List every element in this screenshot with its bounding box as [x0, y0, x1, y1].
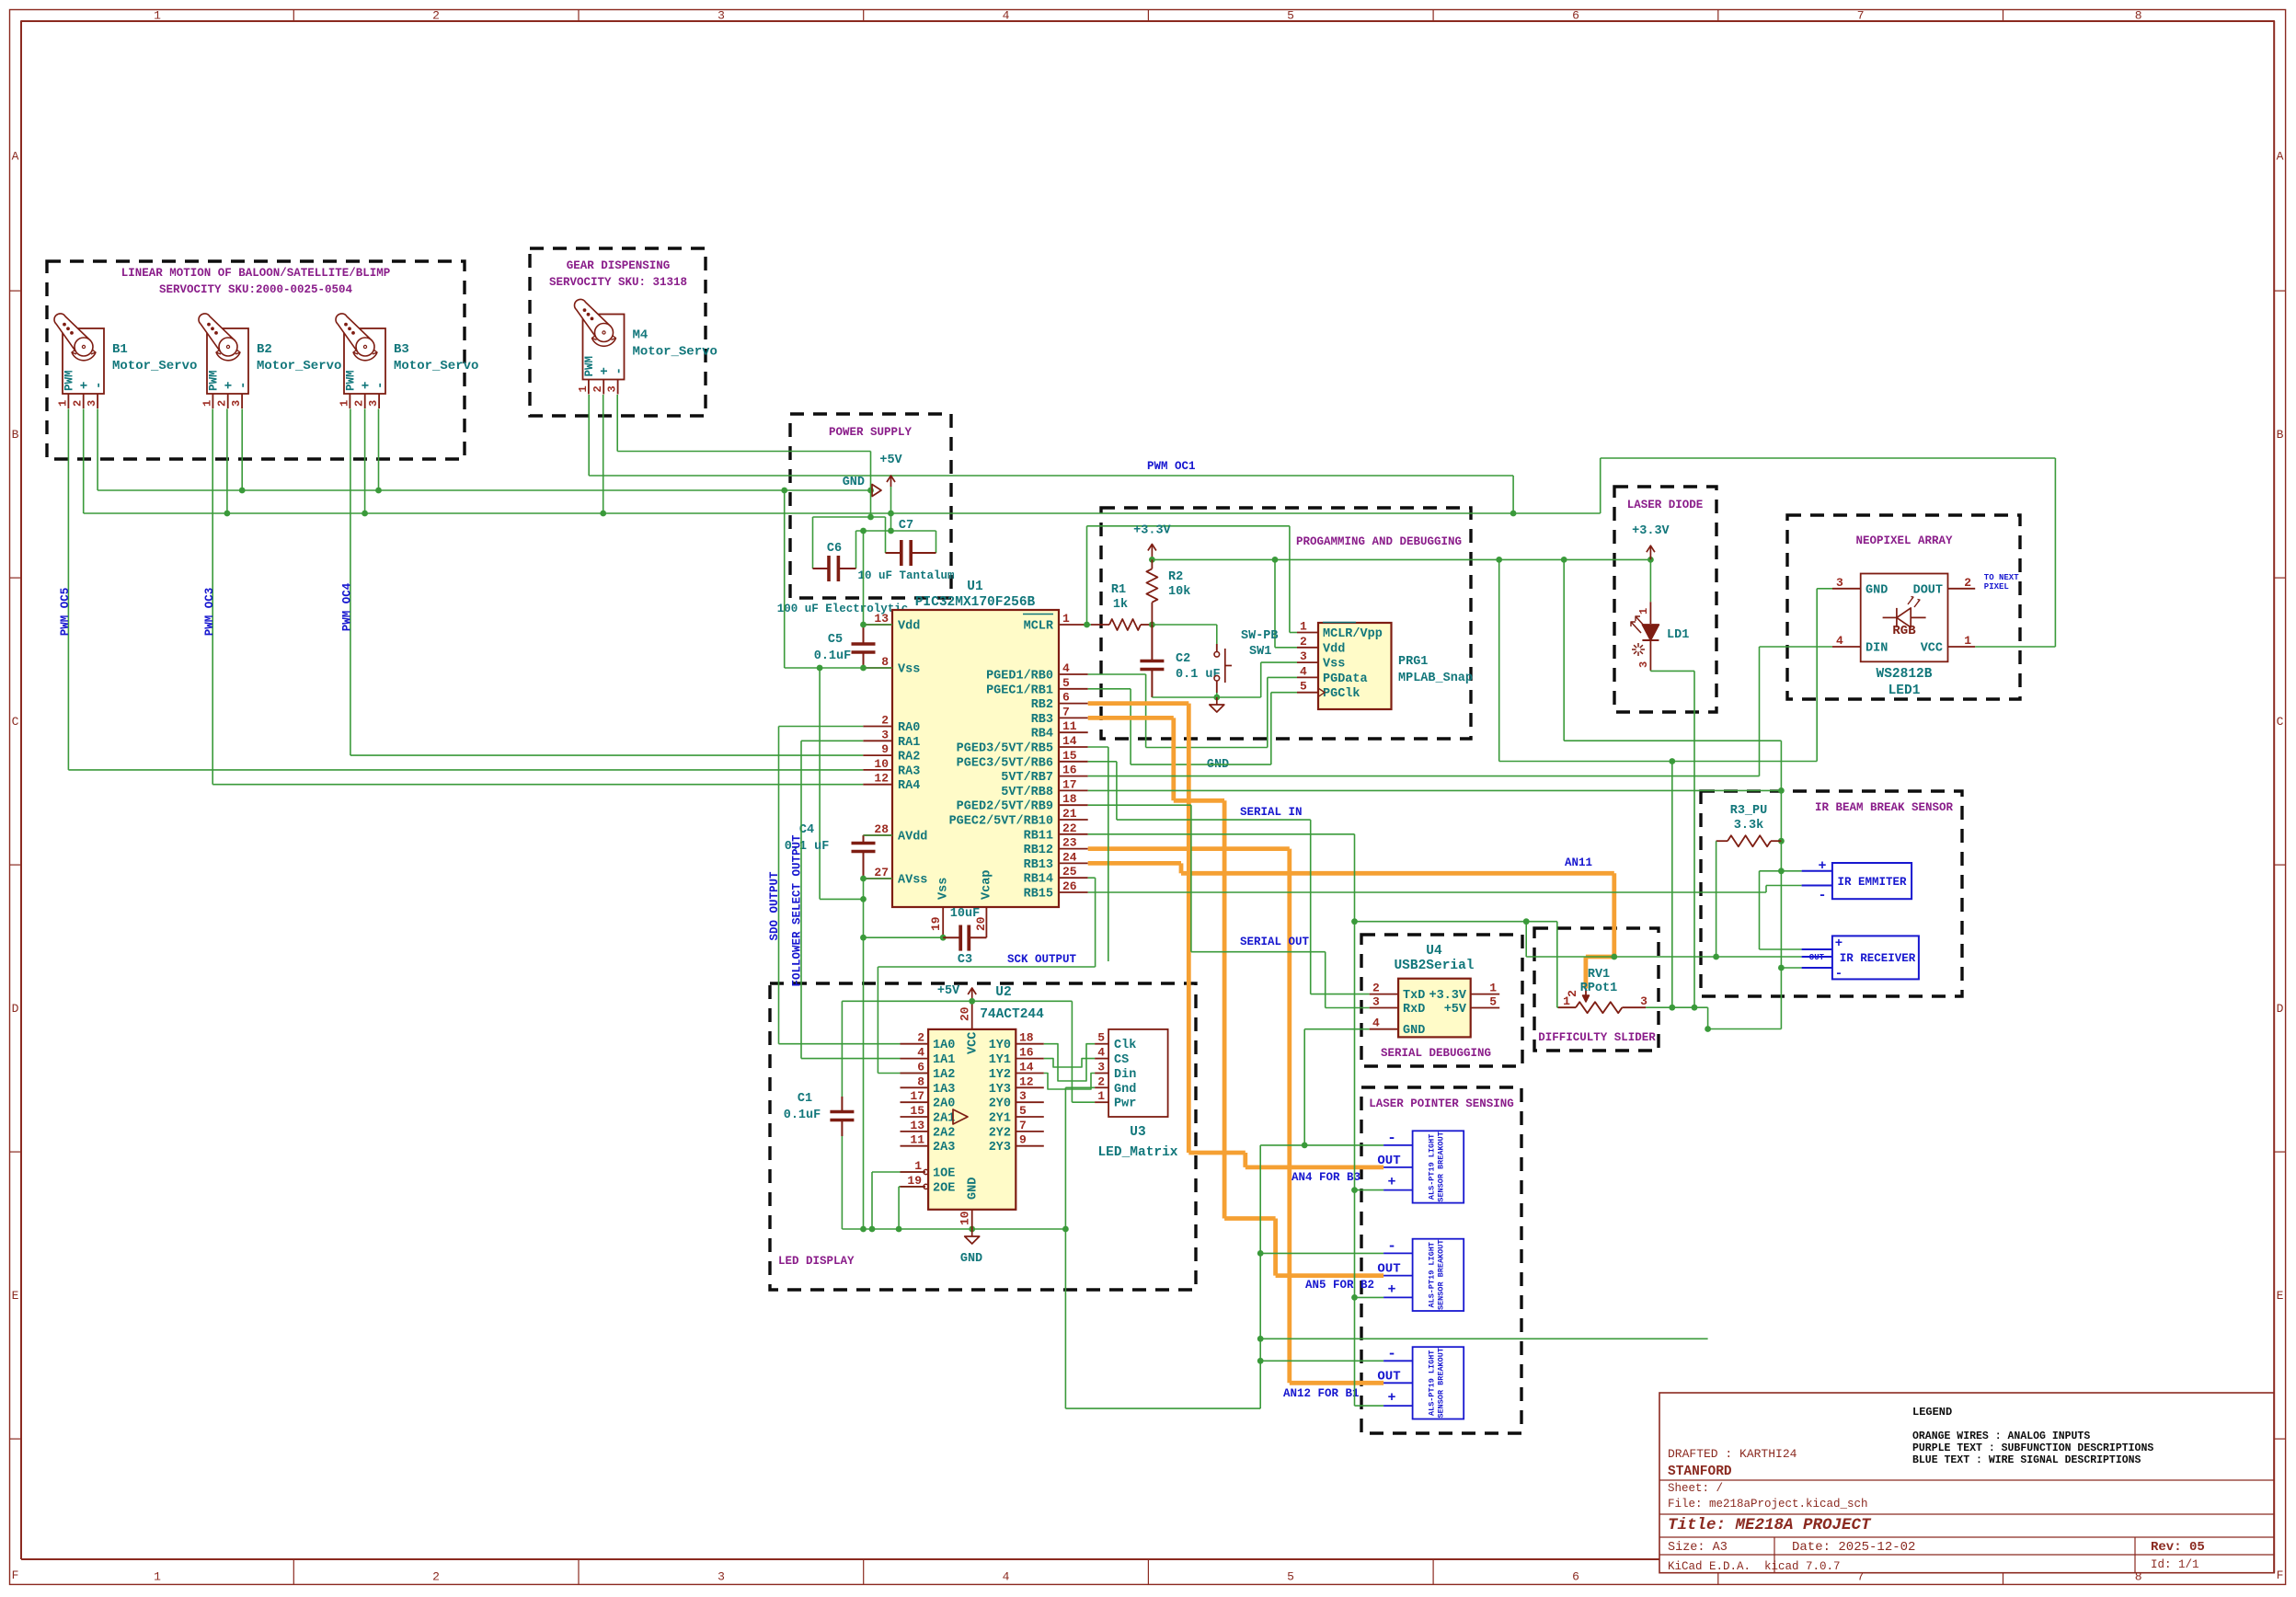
svg-text:2Y0: 2Y0 — [989, 1097, 1011, 1111]
svg-text:D: D — [2277, 1002, 2284, 1016]
svg-text:4: 4 — [1062, 661, 1070, 675]
svg-text:PROGAMMING AND DEBUGGING: PROGAMMING AND DEBUGGING — [1296, 535, 1462, 548]
svg-text:Sheet: /: Sheet: / — [1668, 1482, 1723, 1495]
svg-text:23: 23 — [1062, 836, 1077, 850]
svg-text:Clk: Clk — [1114, 1039, 1136, 1052]
svg-text:3: 3 — [1640, 994, 1647, 1008]
svg-text:Motor_Servo: Motor_Servo — [394, 359, 478, 373]
svg-text:5: 5 — [1300, 680, 1307, 694]
svg-text:A: A — [2277, 150, 2284, 164]
svg-text:1A0: 1A0 — [933, 1039, 955, 1052]
svg-text:6: 6 — [1572, 1570, 1579, 1584]
svg-text:RA1: RA1 — [898, 736, 920, 750]
svg-text:Din: Din — [1114, 1068, 1136, 1082]
svg-text:PGED2/5VT/RB9: PGED2/5VT/RB9 — [957, 800, 1053, 814]
svg-text:R3_PU: R3_PU — [1730, 804, 1768, 818]
svg-text:RB14: RB14 — [1024, 873, 1053, 887]
svg-text:1Y1: 1Y1 — [989, 1053, 1011, 1067]
svg-text:PWM: PWM — [63, 370, 75, 391]
svg-text:RA0: RA0 — [898, 721, 920, 735]
svg-text:3: 3 — [1300, 649, 1307, 663]
svg-text:+5V: +5V — [1444, 1003, 1467, 1017]
svg-text:SW1: SW1 — [1249, 645, 1271, 659]
svg-text:ORANGE WIRES : ANALOG INPUTS: ORANGE WIRES : ANALOG INPUTS — [1912, 1430, 2090, 1442]
svg-text:12: 12 — [1019, 1074, 1034, 1088]
svg-text:11: 11 — [1062, 719, 1077, 733]
svg-text:MPLAB_Snap: MPLAB_Snap — [1398, 672, 1473, 685]
svg-text:17: 17 — [1062, 777, 1077, 791]
svg-text:3: 3 — [86, 400, 98, 407]
svg-text:5: 5 — [1287, 9, 1294, 23]
svg-text:GEAR DISPENSING: GEAR DISPENSING — [567, 259, 671, 272]
svg-text:3: 3 — [1097, 1061, 1105, 1074]
svg-text:-: - — [1387, 1345, 1396, 1361]
svg-text:1: 1 — [1097, 1089, 1105, 1103]
svg-text:6: 6 — [1572, 9, 1579, 23]
svg-text:PWM: PWM — [344, 370, 357, 391]
svg-text:1: 1 — [154, 9, 161, 23]
svg-text:2: 2 — [432, 9, 440, 23]
svg-text:SERVOCITY SKU:2000-0025-0504: SERVOCITY SKU:2000-0025-0504 — [159, 283, 353, 296]
svg-text:3: 3 — [881, 728, 889, 741]
svg-text:0.1uF: 0.1uF — [784, 1109, 821, 1122]
svg-text:RB4: RB4 — [1031, 728, 1053, 741]
svg-text:15: 15 — [910, 1104, 924, 1118]
svg-text:ALS-PT19 LIGHT: ALS-PT19 LIGHT — [1427, 1242, 1436, 1307]
svg-text:3: 3 — [1372, 995, 1380, 1009]
svg-text:5: 5 — [1489, 995, 1497, 1009]
svg-text:5: 5 — [1019, 1104, 1027, 1118]
svg-text:ALS-PT19 LIGHT: ALS-PT19 LIGHT — [1427, 1134, 1436, 1200]
svg-text:5: 5 — [1097, 1031, 1105, 1045]
svg-text:Rev: 05: Rev: 05 — [2151, 1540, 2205, 1555]
svg-text:20: 20 — [959, 1006, 972, 1021]
svg-text:STANFORD: STANFORD — [1668, 1465, 1732, 1479]
svg-text:PGData: PGData — [1323, 672, 1368, 686]
svg-text:3: 3 — [1019, 1089, 1027, 1103]
svg-text:Vss: Vss — [937, 878, 951, 900]
svg-text:+5V: +5V — [879, 454, 902, 467]
svg-text:Pwr: Pwr — [1114, 1097, 1136, 1111]
svg-text:+: + — [598, 367, 613, 374]
svg-text:RB15: RB15 — [1024, 888, 1053, 902]
svg-text:Vdd: Vdd — [898, 620, 920, 634]
svg-text:1: 1 — [1489, 982, 1497, 995]
svg-text:1OE: 1OE — [933, 1167, 955, 1181]
svg-text:+3.3V: +3.3V — [1133, 524, 1171, 538]
svg-text:10 uF Tantalum: 10 uF Tantalum — [857, 569, 955, 582]
svg-text:4: 4 — [917, 1046, 924, 1060]
svg-text:CS: CS — [1114, 1053, 1129, 1067]
svg-text:SERVOCITY SKU: 31318: SERVOCITY SKU: 31318 — [549, 276, 687, 289]
svg-text:RGB: RGB — [1892, 624, 1916, 638]
svg-text:RB2: RB2 — [1031, 698, 1053, 712]
svg-text:PGClk: PGClk — [1323, 687, 1360, 701]
svg-text:LD1: LD1 — [1667, 628, 1689, 642]
svg-text:21: 21 — [1062, 807, 1077, 821]
svg-text:SERIAL OUT: SERIAL OUT — [1240, 936, 1310, 948]
svg-text:PWM: PWM — [207, 370, 220, 391]
svg-text:Motor_Servo: Motor_Servo — [633, 345, 717, 360]
svg-text:5VT/RB8: 5VT/RB8 — [1001, 786, 1053, 799]
svg-text:2A1: 2A1 — [933, 1112, 955, 1126]
svg-text:POWER SUPPLY: POWER SUPPLY — [829, 426, 913, 439]
svg-text:BLUE TEXT : WIRE SIGNAL DESCRI: BLUE TEXT : WIRE SIGNAL DESCRIPTIONS — [1912, 1454, 2141, 1466]
svg-text:1A2: 1A2 — [933, 1068, 955, 1082]
svg-text:File: me218aProject.kicad_sch: File: me218aProject.kicad_sch — [1668, 1498, 1868, 1511]
svg-text:WS2812B: WS2812B — [1877, 667, 1933, 682]
svg-text:8: 8 — [917, 1074, 924, 1088]
svg-text:PURPLE TEXT : SUBFUNCTION DESC: PURPLE TEXT : SUBFUNCTION DESCRIPTIONS — [1912, 1442, 2153, 1454]
svg-text:PWM OC1: PWM OC1 — [1147, 460, 1196, 473]
svg-text:1: 1 — [1300, 620, 1307, 634]
svg-text:26: 26 — [1062, 879, 1077, 893]
svg-text:2A3: 2A3 — [933, 1141, 955, 1155]
svg-text:E: E — [2277, 1289, 2284, 1303]
svg-text:+: + — [1818, 858, 1826, 874]
svg-text:1: 1 — [154, 1570, 161, 1584]
svg-text:C: C — [12, 715, 19, 729]
svg-text:2: 2 — [1097, 1074, 1105, 1088]
svg-text:Id: 1/1: Id: 1/1 — [2151, 1558, 2199, 1571]
svg-text:AVdd: AVdd — [898, 831, 927, 844]
svg-text:C: C — [2277, 715, 2284, 729]
svg-text:PIXEL: PIXEL — [1984, 582, 2009, 592]
svg-text:9: 9 — [1019, 1133, 1027, 1147]
svg-text:18: 18 — [1062, 792, 1077, 806]
svg-text:AN5 FOR B2: AN5 FOR B2 — [1305, 1279, 1374, 1292]
svg-text:-: - — [613, 367, 627, 374]
svg-text:E: E — [12, 1289, 19, 1303]
svg-text:C1: C1 — [798, 1092, 812, 1106]
svg-text:8: 8 — [881, 655, 889, 669]
svg-text:SW-PB: SW-PB — [1241, 629, 1279, 643]
svg-text:LINEAR MOTION OF BALOON/SATELL: LINEAR MOTION OF BALOON/SATELLITE/BLIMP — [121, 267, 391, 280]
svg-text:2OE: 2OE — [933, 1181, 955, 1195]
svg-text:FOLLOWER SELECT OUTPUT: FOLLOWER SELECT OUTPUT — [791, 834, 804, 987]
svg-text:0.1 uF: 0.1 uF — [1176, 668, 1221, 682]
svg-text:5: 5 — [1062, 676, 1070, 690]
svg-text:13: 13 — [910, 1119, 924, 1132]
svg-text:1Y2: 1Y2 — [989, 1068, 1011, 1082]
svg-text:8: 8 — [2135, 1570, 2142, 1584]
svg-text:Vss: Vss — [1323, 658, 1345, 672]
svg-text:25: 25 — [1062, 865, 1077, 879]
svg-text:1: 1 — [1964, 634, 1971, 648]
svg-text:3: 3 — [717, 9, 725, 23]
svg-text:-: - — [1835, 967, 1843, 982]
svg-text:10: 10 — [959, 1211, 972, 1225]
svg-text:1: 1 — [201, 400, 213, 407]
svg-text:LED DISPLAY: LED DISPLAY — [778, 1255, 855, 1268]
svg-text:PGED1/RB0: PGED1/RB0 — [986, 670, 1053, 684]
svg-text:16: 16 — [1019, 1046, 1034, 1060]
svg-text:TO NEXT: TO NEXT — [1984, 573, 2019, 582]
svg-text:D: D — [12, 1002, 19, 1016]
svg-text:10uF: 10uF — [950, 907, 980, 921]
svg-text:2: 2 — [432, 1570, 440, 1584]
svg-text:SCK OUTPUT: SCK OUTPUT — [1007, 953, 1077, 966]
svg-text:13: 13 — [874, 612, 889, 626]
svg-text:Title: ME218A PROJECT: Title: ME218A PROJECT — [1668, 1516, 1872, 1534]
svg-text:1k: 1k — [1113, 598, 1128, 612]
svg-text:-: - — [373, 382, 388, 389]
svg-text:C6: C6 — [827, 542, 842, 556]
svg-text:MCLR: MCLR — [1024, 620, 1054, 634]
svg-text:PGED3/5VT/RB5: PGED3/5VT/RB5 — [957, 742, 1053, 756]
svg-text:+: + — [1387, 1175, 1395, 1190]
svg-text:RA2: RA2 — [898, 751, 920, 764]
svg-text:RPot1: RPot1 — [1580, 982, 1618, 995]
svg-text:DIFFICULTY SLIDER: DIFFICULTY SLIDER — [1538, 1031, 1656, 1044]
svg-text:OUT: OUT — [1809, 953, 1825, 962]
svg-text:LED_Matrix: LED_Matrix — [1097, 1145, 1177, 1160]
svg-text:7: 7 — [1019, 1119, 1027, 1132]
svg-text:2Y2: 2Y2 — [989, 1126, 1011, 1140]
svg-text:7: 7 — [1857, 9, 1865, 23]
svg-text:GND: GND — [1403, 1024, 1425, 1038]
svg-text:2: 2 — [881, 714, 889, 728]
svg-text:AN11: AN11 — [1565, 856, 1592, 869]
svg-text:RA4: RA4 — [898, 779, 920, 793]
svg-text:ALS-PT19 LIGHT: ALS-PT19 LIGHT — [1427, 1350, 1436, 1416]
svg-text:-: - — [236, 382, 251, 389]
svg-text:+3.3V: +3.3V — [1632, 524, 1670, 538]
svg-text:11: 11 — [910, 1133, 924, 1147]
svg-text:GND: GND — [1865, 583, 1888, 597]
svg-text:5: 5 — [1287, 1570, 1294, 1584]
svg-text:Motor_Servo: Motor_Servo — [112, 359, 197, 373]
svg-text:KiCad E.D.A. kicad 7.0.7: KiCad E.D.A. kicad 7.0.7 — [1668, 1560, 1841, 1573]
svg-text:U4: U4 — [1426, 944, 1442, 959]
svg-text:PGEC1/RB1: PGEC1/RB1 — [986, 684, 1053, 697]
svg-text:U3: U3 — [1130, 1125, 1145, 1140]
svg-text:9: 9 — [881, 742, 889, 756]
svg-text:3: 3 — [717, 1570, 725, 1584]
svg-text:IR EMMITER: IR EMMITER — [1837, 876, 1907, 889]
svg-text:Vdd: Vdd — [1323, 642, 1345, 656]
svg-text:AN12 FOR B1: AN12 FOR B1 — [1283, 1387, 1360, 1400]
svg-text:14: 14 — [1062, 734, 1077, 748]
svg-text:C2: C2 — [1176, 652, 1190, 666]
svg-text:OUT: OUT — [1377, 1369, 1400, 1384]
svg-text:MCLR/Vpp: MCLR/Vpp — [1323, 627, 1383, 641]
svg-text:IR RECEIVER: IR RECEIVER — [1840, 952, 1916, 965]
svg-text:2A0: 2A0 — [933, 1097, 955, 1111]
svg-text:+5V: +5V — [937, 984, 960, 998]
svg-text:SDO OUTPUT: SDO OUTPUT — [768, 871, 781, 941]
svg-text:-: - — [1387, 1237, 1396, 1254]
svg-text:VCC: VCC — [1921, 642, 1943, 656]
svg-text:2: 2 — [591, 385, 604, 392]
svg-text:GND: GND — [843, 476, 865, 489]
svg-text:1Y0: 1Y0 — [989, 1039, 1011, 1052]
svg-text:1A3: 1A3 — [933, 1083, 955, 1097]
svg-text:7: 7 — [1062, 705, 1070, 718]
svg-text:+: + — [1835, 936, 1843, 951]
svg-text:Vss: Vss — [898, 663, 920, 677]
svg-text:RV1: RV1 — [1588, 968, 1610, 982]
svg-text:RA3: RA3 — [898, 764, 920, 778]
svg-text:2: 2 — [1964, 576, 1971, 590]
svg-text:SENSOR BREAKOUT: SENSOR BREAKOUT — [1436, 1240, 1445, 1311]
svg-text:6: 6 — [917, 1061, 924, 1074]
svg-text:RxD: RxD — [1403, 1003, 1425, 1017]
svg-text:18: 18 — [1019, 1031, 1034, 1045]
svg-text:DRAFTED : KARTHI24: DRAFTED : KARTHI24 — [1668, 1447, 1797, 1461]
svg-text:10: 10 — [874, 757, 889, 771]
svg-text:27: 27 — [874, 866, 889, 879]
svg-text:B: B — [12, 428, 19, 442]
svg-text:3: 3 — [367, 400, 380, 407]
svg-text:+: + — [1387, 1281, 1395, 1297]
svg-text:NEOPIXEL ARRAY: NEOPIXEL ARRAY — [1855, 534, 1953, 547]
svg-text:12: 12 — [874, 772, 889, 786]
svg-text:2A2: 2A2 — [933, 1126, 955, 1140]
svg-text:Vcap: Vcap — [981, 870, 994, 900]
svg-text:+: + — [1387, 1390, 1395, 1406]
svg-text:PGEC3/5VT/RB6: PGEC3/5VT/RB6 — [957, 756, 1053, 770]
svg-text:PWM OC3: PWM OC3 — [203, 588, 216, 637]
svg-text:1: 1 — [56, 400, 69, 407]
svg-text:14: 14 — [1019, 1061, 1034, 1074]
svg-text:RB11: RB11 — [1024, 829, 1053, 843]
svg-text:VCC: VCC — [967, 1032, 981, 1054]
svg-text:AN4 FOR B3: AN4 FOR B3 — [1291, 1171, 1360, 1184]
svg-text:C5: C5 — [828, 633, 843, 647]
svg-text:3: 3 — [230, 400, 243, 407]
svg-text:+3.3V: +3.3V — [1429, 989, 1466, 1003]
svg-text:3.3k: 3.3k — [1734, 819, 1763, 833]
svg-text:+: + — [223, 382, 237, 389]
svg-text:M4: M4 — [633, 328, 649, 343]
svg-text:7: 7 — [1857, 1570, 1865, 1584]
svg-text:F: F — [2277, 1568, 2284, 1582]
svg-text:8: 8 — [2135, 9, 2142, 23]
svg-text:SENSOR BREAKOUT: SENSOR BREAKOUT — [1436, 1132, 1445, 1202]
svg-text:2: 2 — [1300, 635, 1307, 649]
svg-text:Motor_Servo: Motor_Servo — [257, 359, 341, 373]
svg-text:C3: C3 — [958, 953, 972, 967]
svg-text:2Y1: 2Y1 — [989, 1112, 1011, 1126]
svg-text:24: 24 — [1062, 850, 1077, 864]
svg-text:2: 2 — [72, 400, 85, 407]
svg-text:1: 1 — [577, 385, 590, 392]
svg-text:4: 4 — [1372, 1017, 1380, 1030]
svg-text:4: 4 — [1097, 1046, 1105, 1060]
svg-text:3: 3 — [1836, 576, 1843, 590]
svg-text:B3: B3 — [394, 342, 409, 357]
svg-text:PRG1: PRG1 — [1398, 655, 1428, 669]
svg-text:B1: B1 — [112, 342, 128, 357]
svg-text:TxD: TxD — [1403, 989, 1425, 1003]
svg-text:RB13: RB13 — [1024, 858, 1053, 872]
svg-text:4: 4 — [1836, 634, 1843, 648]
svg-text:17: 17 — [910, 1089, 924, 1103]
svg-text:Size: A3: Size: A3 — [1668, 1541, 1728, 1555]
svg-text:2: 2 — [917, 1031, 924, 1045]
svg-text:OUT: OUT — [1377, 1154, 1400, 1168]
svg-text:1: 1 — [1062, 612, 1070, 626]
svg-text:22: 22 — [1062, 821, 1077, 835]
svg-text:-: - — [1387, 1130, 1396, 1146]
svg-text:2: 2 — [216, 400, 229, 407]
svg-text:5VT/RB7: 5VT/RB7 — [1001, 771, 1053, 785]
svg-text:15: 15 — [1062, 749, 1077, 763]
svg-text:R2: R2 — [1168, 570, 1183, 584]
svg-text:PWM OC4: PWM OC4 — [341, 582, 354, 631]
svg-text:-: - — [1818, 888, 1826, 903]
svg-text:74ACT244: 74ACT244 — [980, 1007, 1044, 1022]
svg-text:SERIAL DEBUGGING: SERIAL DEBUGGING — [1381, 1047, 1491, 1060]
svg-text:4: 4 — [1003, 9, 1010, 23]
svg-text:1: 1 — [338, 400, 350, 407]
svg-text:DOUT: DOUT — [1913, 583, 1943, 597]
svg-text:2: 2 — [1566, 990, 1579, 997]
svg-text:GND: GND — [967, 1178, 981, 1200]
svg-text:LASER POINTER SENSING: LASER POINTER SENSING — [1369, 1097, 1514, 1110]
svg-text:RB3: RB3 — [1031, 713, 1053, 727]
svg-text:SERIAL IN: SERIAL IN — [1240, 806, 1303, 819]
svg-text:6: 6 — [1062, 691, 1070, 705]
svg-text:2Y3: 2Y3 — [989, 1141, 1011, 1155]
svg-text:F: F — [12, 1568, 19, 1582]
svg-text:A: A — [12, 150, 19, 164]
svg-text:Gnd: Gnd — [1114, 1083, 1136, 1097]
svg-text:LASER DIODE: LASER DIODE — [1627, 499, 1704, 511]
svg-text:C7: C7 — [899, 519, 913, 533]
svg-text:19: 19 — [907, 1174, 922, 1188]
svg-text:3: 3 — [606, 385, 619, 392]
svg-text:16: 16 — [1062, 764, 1077, 777]
svg-text:4: 4 — [1003, 1570, 1010, 1584]
svg-text:DIN: DIN — [1865, 642, 1888, 656]
svg-text:1A1: 1A1 — [933, 1053, 955, 1067]
svg-text:+: + — [78, 382, 93, 389]
svg-text:2: 2 — [1372, 982, 1380, 995]
svg-text:PWM: PWM — [583, 356, 596, 377]
svg-text:B: B — [2277, 428, 2284, 442]
svg-text:1Y3: 1Y3 — [989, 1083, 1011, 1097]
svg-text:B2: B2 — [257, 342, 272, 357]
svg-text:USB2Serial: USB2Serial — [1394, 959, 1474, 973]
svg-text:19: 19 — [929, 916, 943, 931]
svg-text:LEGEND: LEGEND — [1912, 1406, 1952, 1419]
svg-text:IR BEAM BREAK SENSOR: IR BEAM BREAK SENSOR — [1815, 801, 1954, 814]
svg-text:0.1uF: 0.1uF — [814, 649, 852, 663]
svg-text:1: 1 — [1637, 608, 1650, 615]
svg-text:1: 1 — [914, 1159, 922, 1173]
svg-text:OUT: OUT — [1377, 1262, 1400, 1277]
svg-text:U1: U1 — [967, 580, 983, 594]
svg-text:PIC32MX170F256B: PIC32MX170F256B — [915, 595, 1036, 610]
svg-text:PGEC2/5VT/RB10: PGEC2/5VT/RB10 — [949, 815, 1053, 829]
svg-text:LED1: LED1 — [1888, 684, 1921, 698]
svg-text:Date: 2025-12-02: Date: 2025-12-02 — [1792, 1540, 1915, 1555]
svg-text:U2: U2 — [995, 985, 1011, 1000]
svg-text:GND: GND — [960, 1252, 982, 1266]
svg-text:AVss: AVss — [898, 874, 927, 888]
svg-text:RB12: RB12 — [1024, 844, 1053, 857]
svg-text:10k: 10k — [1168, 585, 1190, 599]
svg-text:28: 28 — [874, 822, 889, 836]
svg-text:2: 2 — [353, 400, 366, 407]
svg-text:SENSOR BREAKOUT: SENSOR BREAKOUT — [1436, 1348, 1445, 1419]
svg-text:R1: R1 — [1111, 583, 1126, 597]
svg-text:4: 4 — [1300, 664, 1307, 678]
svg-text:-: - — [92, 382, 107, 389]
svg-text:+: + — [360, 382, 374, 389]
